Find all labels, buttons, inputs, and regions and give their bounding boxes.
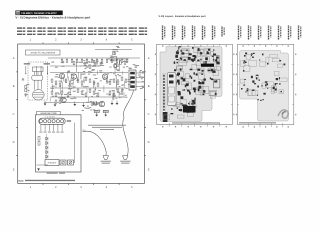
capacitor C610: [89, 79, 91, 82]
left PCB board outline: [160, 47, 222, 122]
capacitor C620: [121, 91, 123, 94]
mic dashed enclosure: [28, 62, 48, 100]
resistor R644: [101, 58, 103, 62]
right PCB frame: [238, 44, 294, 127]
triangle marker: [37, 168, 40, 170]
capacitor C617: [89, 89, 91, 92]
svg-text:Nota:: Nota:: [18, 180, 24, 183]
ground G5: [92, 101, 95, 106]
resistor R619: [77, 89, 79, 92]
svg-text:E: E: [148, 169, 150, 172]
wire box internal right: [74, 123, 76, 163]
connector CN602 wires: [41, 124, 62, 131]
capacitor C601: [25, 85, 27, 88]
headphone board outline box: [36, 115, 82, 172]
capacitor C602: [25, 89, 27, 92]
capacitor C604: [100, 63, 102, 66]
svg-text:FW-M567 / FW-M589 / FW-M797: FW-M567 / FW-M589 / FW-M797: [21, 12, 57, 15]
mic plug P2: [120, 156, 130, 164]
ground G6: [95, 101, 98, 106]
rotated parts list right group: [239, 26, 301, 41]
capacitor C613: [121, 77, 123, 80]
svg-text:V-10) Layout - Karaoke & Headp: V-10) Layout - Karaoke & Headphone part: [159, 15, 206, 18]
resistor R603: [94, 63, 96, 66]
left PCB component outlines: [163, 48, 220, 120]
resistor R605: [114, 52, 116, 55]
resistor R620: [85, 93, 87, 96]
page header black bar: [15, 11, 62, 16]
resistor R630: [113, 52, 115, 55]
right page title: [159, 15, 206, 18]
capacitor C660: [66, 58, 68, 62]
capacitor C611: [97, 83, 99, 86]
resistor R617: [51, 91, 53, 94]
ground G2: [54, 102, 57, 107]
right PCB board outline: [240, 51, 289, 122]
svg-text:C: C: [13, 113, 15, 116]
wire row B bus: [50, 72, 128, 74]
wire vertical stubs: [50, 70, 124, 103]
capacitor C630: [112, 57, 117, 61]
mic input labels: [24, 63, 50, 64]
svg-text:V - 5) Diagrama Elétrico - Kar: V - 5) Diagrama Elétrico - Karaoke & Hea…: [15, 16, 90, 20]
resistor R601: [73, 62, 75, 65]
resistor R643: [91, 58, 93, 62]
capacitor C606: [124, 61, 126, 64]
capacitor C607: [59, 83, 61, 86]
resistor R624: [91, 102, 93, 105]
mic input arrows: [25, 66, 48, 75]
net label E: [83, 129, 86, 132]
connector CN602 net labels: [39, 132, 63, 133]
resistor R610: [65, 79, 67, 82]
svg-text:E: E: [13, 169, 15, 172]
capacitor C612: [113, 79, 115, 82]
connector CN602 label: [67, 120, 71, 122]
mic capsule MK1: [32, 90, 44, 100]
mic jack body: [32, 75, 43, 80]
right PCB component outlines: [240, 54, 287, 95]
wire right bus: [108, 58, 129, 60]
left PCB component marks: [167, 46, 220, 114]
capacitor C605: [112, 58, 114, 61]
capacitor C609: [81, 81, 83, 84]
note text block: [88, 125, 126, 130]
svg-text:KARAOKE PWB: KARAOKE PWB: [40, 112, 57, 115]
wire bottom bus: [44, 102, 100, 104]
resistor R642: [81, 58, 83, 62]
karaoke label box: [37, 111, 61, 115]
PCB frame row letters: [155, 54, 296, 116]
capacitor C640: [38, 137, 40, 141]
svg-text:C: C: [148, 113, 150, 116]
resistor R606: [115, 65, 117, 68]
resistor R616: [125, 79, 127, 82]
svg-text:3: 3: [80, 186, 82, 189]
parts list table: [17, 27, 147, 35]
svg-text:3: 3: [80, 39, 82, 42]
right PCB scribble: [278, 110, 288, 118]
capacitor C666: [126, 58, 128, 62]
capacitor C650: [94, 110, 99, 116]
svg-text:versão TC seq./2003-09: versão TC seq./2003-09: [30, 52, 55, 55]
capacitor C615: [67, 93, 69, 96]
capacitor C651: [103, 110, 108, 116]
capacitor C616: [81, 91, 83, 94]
connector CN601 pin wires: [136, 72, 144, 87]
transistor Q602: [71, 74, 76, 79]
transistor Q601: [59, 73, 64, 78]
schematic frame with grid coordinates: [13, 39, 150, 189]
mic connector J1: [33, 67, 44, 90]
left PCB bottom caption: [172, 122, 220, 123]
caption under box: [47, 173, 65, 174]
resistor R640: [61, 58, 63, 62]
svg-text:A: A: [148, 57, 150, 60]
svg-text:B: B: [148, 85, 150, 88]
capacitor C618: [97, 93, 99, 96]
svg-text:A: A: [13, 57, 15, 60]
resistor R618: [61, 91, 63, 94]
component reference labels: [22, 46, 145, 111]
resistor R614: [109, 81, 111, 84]
resistor R611: [77, 79, 79, 82]
wire row B lower bus: [50, 87, 126, 89]
capacitor C664: [106, 58, 108, 62]
capacitor C663: [96, 58, 98, 62]
capacitor C614: [55, 93, 57, 96]
capacitor C631: [114, 65, 117, 68]
capacitor C608: [69, 81, 71, 84]
ground G3: [73, 102, 76, 107]
connector CN602: [39, 118, 65, 124]
capacitor C619: [113, 93, 115, 96]
resistor R615: [117, 81, 119, 84]
wire vertical net 1: [75, 59, 77, 72]
resistor R608: [51, 79, 53, 82]
wire vertical net 2: [118, 59, 120, 70]
switch SW2: [68, 160, 74, 165]
capacitor C622: [59, 100, 61, 103]
svg-text:4: 4: [106, 39, 108, 42]
svg-text:D: D: [13, 141, 15, 144]
wire row C bus: [50, 96, 122, 98]
rotated parts list left group: [163, 26, 225, 41]
svg-text:1: 1: [30, 39, 32, 42]
wire main top bus: [48, 57, 140, 59]
svg-text:1: 1: [30, 186, 32, 189]
ground G4: [82, 103, 85, 108]
connector CN602 pin numbers: [45, 116, 55, 119]
ground G8: [116, 101, 119, 106]
svg-text:B: B: [13, 85, 15, 88]
ground mic section: [24, 95, 26, 97]
resistor R621: [93, 91, 95, 94]
wire mid bus: [50, 65, 100, 67]
resistor R607: [120, 61, 122, 64]
right PCB bottom caption: [239, 122, 276, 123]
resistor R625: [55, 100, 57, 103]
resistor R646: [121, 58, 123, 62]
resistor R604: [110, 58, 112, 61]
svg-text:2: 2: [55, 39, 57, 42]
transistor Q604: [61, 97, 66, 102]
capacitor C665: [116, 58, 118, 62]
revision label box: [26, 50, 61, 55]
bottom note line: [18, 180, 75, 183]
left PCB side text strip: [162, 74, 167, 122]
left PCB frame: [157, 44, 233, 127]
ground G7: [111, 101, 114, 106]
resistor R602: [84, 63, 86, 66]
transistor Q603: [102, 74, 107, 79]
svg-text:PHONES: PHONES: [48, 162, 57, 165]
headphone jack box: [45, 160, 59, 166]
svg-text:5: 5: [131, 39, 133, 42]
mic plug P1: [101, 156, 111, 164]
wire upper bus: [95, 49, 132, 51]
left page title: [15, 16, 90, 20]
resistor R623: [117, 89, 119, 92]
resistor R612: [85, 77, 87, 80]
resistor R641: [71, 58, 73, 62]
node A label: [112, 49, 118, 50]
svg-text:4: 4: [106, 186, 108, 189]
capacitor C641: [38, 142, 40, 146]
resistor R609: [55, 81, 57, 84]
right PCB component marks: [241, 53, 285, 101]
switch SW1: [60, 160, 66, 165]
resistor R622: [109, 91, 111, 94]
capacitor C661: [76, 58, 78, 62]
ground G1: [44, 101, 47, 106]
capacitor C603: [89, 65, 91, 68]
svg-text:39: 39: [16, 11, 20, 15]
svg-text:D: D: [148, 141, 150, 144]
transistor Q605: [99, 101, 104, 106]
resistor R645: [111, 58, 113, 62]
resistor R613: [93, 81, 95, 84]
capacitor C662: [86, 58, 88, 62]
svg-text:2: 2: [55, 186, 57, 189]
mic cable 2: [123, 91, 134, 156]
mic cable 1: [83, 131, 107, 155]
diode chain D601-D605: [46, 134, 48, 159]
capacitor C621: [95, 102, 97, 105]
svg-text:5: 5: [131, 186, 133, 189]
connector CN601: [129, 70, 136, 90]
